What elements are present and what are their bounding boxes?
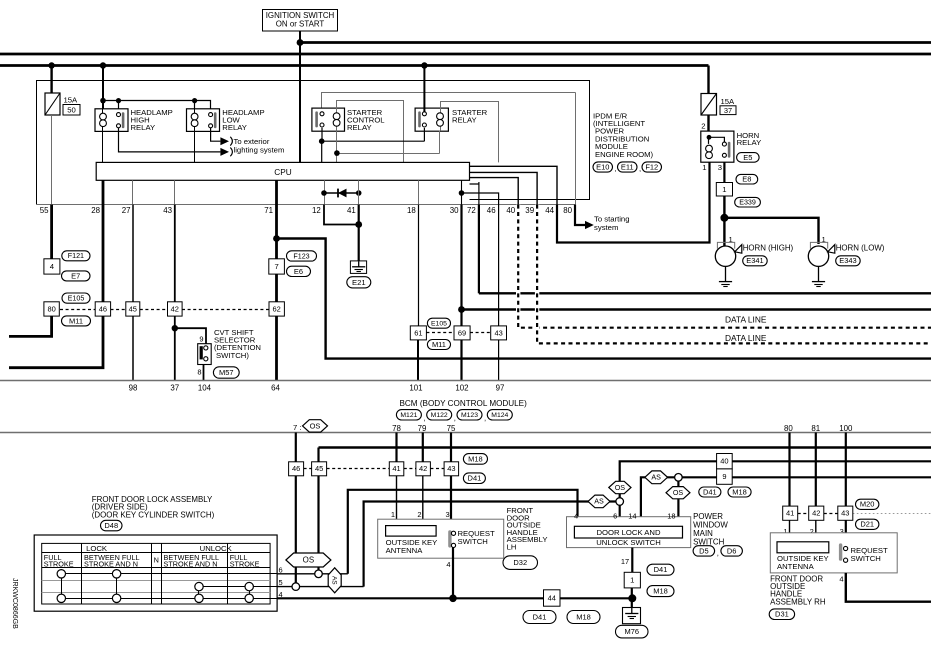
wire pin18 up — [677, 481, 679, 517]
table row wires — [61, 573, 277, 575]
square 44 on wire4 — [544, 590, 561, 606]
square 41 RH — [783, 506, 798, 520]
svg-text:72: 72 — [467, 206, 476, 215]
node — [116, 98, 121, 103]
request switch RH — [839, 543, 842, 560]
svg-text:78: 78 — [392, 424, 401, 433]
front door outside handle LH box — [378, 519, 504, 558]
svg-text:DATA LINE: DATA LINE — [725, 315, 767, 325]
connector row E105/M11 — [60, 309, 95, 311]
wire contacts common — [322, 128, 425, 163]
svg-text:M18: M18 — [468, 454, 483, 463]
wire 2 LH — [422, 476, 424, 526]
svg-text:37: 37 — [724, 106, 732, 115]
outside key antenna LH — [386, 526, 437, 537]
wire to ground M76 — [631, 588, 633, 608]
svg-text:M11: M11 — [432, 340, 446, 349]
node pin71 branch — [273, 235, 280, 242]
square 69 — [454, 326, 470, 340]
node wire4 ground — [628, 594, 636, 602]
svg-text:D41: D41 — [533, 612, 547, 621]
svg-text:46: 46 — [292, 464, 300, 473]
svg-text:62: 62 — [273, 304, 281, 313]
svg-text:CPU: CPU — [274, 168, 291, 177]
relay headlamp high — [95, 109, 128, 132]
svg-text:OS: OS — [673, 489, 684, 497]
node pin41 junction — [355, 221, 362, 228]
svg-text:E105: E105 — [431, 320, 447, 327]
wire4 cylinder — [277, 597, 632, 599]
svg-text:9: 9 — [722, 472, 726, 481]
wire pin44 to horn coil — [557, 162, 710, 242]
svg-text:STROKE: STROKE — [44, 559, 74, 568]
wire pin80 to starting system — [575, 205, 585, 225]
relay starter — [415, 108, 448, 131]
wires RH down — [789, 520, 791, 542]
svg-text:46: 46 — [487, 206, 496, 215]
connector 4 F121/E7 — [44, 259, 60, 274]
svg-text:F123: F123 — [293, 252, 309, 260]
diode — [338, 189, 347, 198]
wire pin17 — [631, 548, 633, 573]
svg-text:STROKE AND N: STROKE AND N — [164, 559, 218, 568]
CPU box — [96, 162, 469, 180]
badge AS line B — [588, 495, 610, 508]
wire 1 LH — [396, 476, 398, 526]
svg-text:D5: D5 — [699, 546, 709, 555]
node wire6-45 — [315, 570, 323, 578]
svg-text:E105: E105 — [68, 294, 85, 302]
square 61 — [410, 326, 426, 340]
node starter relay tap — [421, 62, 427, 68]
svg-text:40: 40 — [720, 457, 728, 466]
svg-text:50: 50 — [67, 106, 76, 115]
wire low coil to CPU — [194, 131, 196, 162]
wire request RH out — [846, 573, 931, 602]
svg-text:43: 43 — [494, 328, 502, 337]
svg-text:E6: E6 — [294, 267, 303, 276]
wire headlamp rail — [103, 101, 211, 113]
wire starter contact feed — [423, 66, 425, 112]
svg-text:SWITCH: SWITCH — [851, 554, 881, 563]
svg-text:27: 27 — [122, 206, 131, 215]
svg-text:42: 42 — [171, 304, 179, 313]
wire CPU to pin44 — [470, 166, 558, 204]
wire pin18 — [418, 180, 420, 204]
svg-text:IGNITION SWITCH: IGNITION SWITCH — [266, 11, 335, 20]
svg-text:71: 71 — [264, 206, 273, 215]
svg-text:DOOR LOCK AND: DOOR LOCK AND — [596, 528, 661, 537]
bus from pin30 — [462, 308, 931, 310]
square 46 row3 — [289, 462, 304, 476]
svg-text:61: 61 — [414, 328, 422, 337]
wire control coil loop — [337, 101, 404, 163]
svg-text:SWITCH): SWITCH) — [216, 351, 249, 360]
wire 81 RH — [815, 433, 817, 507]
node cvt branch — [172, 325, 178, 331]
svg-text:18: 18 — [407, 206, 416, 215]
svg-text:M18: M18 — [576, 612, 591, 621]
wire high coil to CPU — [102, 131, 104, 162]
wire 100 RH — [845, 433, 847, 507]
svg-text:97: 97 — [496, 384, 505, 393]
square 42 row3 — [416, 462, 431, 476]
relay horn — [701, 131, 734, 162]
wire high contact feed — [118, 101, 120, 113]
svg-text:75: 75 — [447, 424, 456, 433]
svg-text:ON or START: ON or START — [276, 20, 325, 29]
svg-text:12: 12 — [312, 206, 321, 215]
wire CPU to pin40 — [470, 178, 519, 205]
arrow to exterior 2 — [220, 148, 229, 156]
square 43 row3 — [444, 462, 459, 476]
svg-text:80: 80 — [47, 304, 55, 313]
wire headlamp feed — [102, 66, 104, 109]
square 45 row3 — [312, 462, 327, 476]
svg-text:80: 80 — [784, 424, 793, 433]
svg-text:17: 17 — [621, 557, 629, 566]
node horn split — [720, 214, 728, 222]
svg-text:M121: M121 — [400, 412, 417, 419]
wire pin72 — [470, 182, 479, 293]
svg-text:D41: D41 — [468, 474, 482, 483]
wire request LH down — [452, 548, 454, 599]
svg-text:41: 41 — [392, 464, 400, 473]
svg-text:1: 1 — [630, 576, 634, 585]
square 43 RH — [838, 506, 853, 520]
svg-text:OS: OS — [310, 421, 321, 430]
relay starter control — [312, 108, 345, 131]
svg-text:system: system — [594, 223, 618, 232]
svg-text:lighting system: lighting system — [234, 146, 285, 155]
svg-text:E7: E7 — [71, 271, 80, 280]
svg-text:9: 9 — [199, 335, 203, 344]
node wire4-request — [449, 595, 457, 603]
svg-text:6: 6 — [613, 511, 617, 520]
svg-text:E10: E10 — [596, 162, 609, 171]
square 46 — [95, 302, 110, 316]
BCM top boundary — [0, 380, 931, 382]
svg-text:44: 44 — [545, 206, 554, 215]
svg-text:102: 102 — [455, 384, 468, 393]
svg-text:4: 4 — [50, 262, 55, 271]
bus L3 — [0, 64, 709, 67]
svg-text:RELAY: RELAY — [222, 123, 247, 132]
node contacts — [319, 138, 325, 144]
svg-text:5: 5 — [279, 578, 283, 587]
svg-text:ANTENNA: ANTENNA — [777, 562, 815, 571]
svg-text:30: 30 — [450, 206, 459, 215]
svg-text:1: 1 — [391, 510, 395, 519]
node wire5-46 — [292, 583, 300, 591]
square 80 — [44, 302, 59, 316]
svg-text:AS: AS — [651, 474, 661, 482]
wire5 riser — [364, 502, 616, 587]
wire pin43 — [174, 180, 176, 204]
door lock and unlock switch box — [567, 517, 691, 548]
bus L1 from ignition — [300, 41, 931, 44]
svg-text:F12: F12 — [645, 162, 658, 171]
svg-text:M20: M20 — [860, 500, 875, 509]
svg-text:M18: M18 — [732, 487, 747, 496]
svg-text:79: 79 — [418, 424, 427, 433]
svg-text:D48: D48 — [104, 521, 118, 530]
svg-text:44: 44 — [548, 593, 556, 602]
relay headlamp low — [187, 109, 220, 132]
connector 7 F123/E6 — [269, 259, 285, 274]
svg-text:69: 69 — [458, 328, 466, 337]
svg-text:55: 55 — [40, 206, 49, 215]
svg-text:STROKE AND N: STROKE AND N — [84, 559, 138, 568]
svg-text:28: 28 — [91, 206, 100, 215]
square 43 — [491, 326, 507, 340]
svg-text:E21: E21 — [352, 278, 366, 287]
node pin30 to46 — [459, 190, 465, 196]
wire fuse50 to pin55 — [51, 115, 53, 205]
svg-text:D31: D31 — [775, 610, 789, 619]
wire pin40 data — [518, 205, 931, 328]
svg-text:AS: AS — [594, 498, 604, 506]
svg-text:ANTENNA: ANTENNA — [386, 546, 424, 555]
svg-text:D32: D32 — [513, 558, 527, 567]
svg-text:46: 46 — [99, 304, 107, 313]
node — [192, 98, 197, 103]
svg-text:RELAY: RELAY — [131, 123, 156, 132]
wire fuse50 feed — [50, 66, 52, 94]
svg-text:42: 42 — [419, 464, 427, 473]
svg-text:LOCK: LOCK — [86, 544, 108, 553]
svg-text:LH: LH — [507, 542, 517, 551]
IPDM E/R outer box — [37, 81, 590, 205]
node diode right — [356, 190, 362, 196]
svg-text:HORN (HIGH): HORN (HIGH) — [743, 244, 794, 253]
wire pin12 — [324, 180, 326, 204]
svg-text:E343: E343 — [839, 256, 856, 265]
wire ignition feed — [299, 31, 301, 162]
svg-text:15A: 15A — [721, 97, 736, 106]
wire diode link — [324, 192, 359, 194]
svg-text:M18: M18 — [653, 587, 668, 596]
svg-text:4: 4 — [574, 511, 578, 520]
wire coils common — [337, 131, 440, 163]
svg-text:43: 43 — [447, 464, 455, 473]
svg-text:M124: M124 — [491, 412, 508, 419]
badge OS driver — [286, 553, 331, 567]
svg-text:81: 81 — [811, 424, 820, 433]
bus L2 — [0, 53, 931, 56]
wire 78 — [395, 433, 397, 462]
wire pin14 up — [641, 477, 931, 516]
square 42 RH — [809, 506, 824, 520]
table contacts — [57, 570, 65, 578]
connector row2 E105/M11 — [426, 332, 454, 334]
node ignition junction — [297, 39, 304, 46]
svg-text:18: 18 — [667, 511, 675, 520]
svg-text:45: 45 — [129, 304, 137, 313]
svg-text:E8: E8 — [742, 175, 751, 184]
svg-text:M122: M122 — [431, 412, 448, 419]
request switch LH — [448, 530, 451, 547]
svg-text:104: 104 — [198, 384, 212, 393]
svg-text:41: 41 — [786, 509, 794, 518]
svg-text:80: 80 — [563, 206, 572, 215]
wire pin71 branch to BCM101 — [277, 239, 931, 359]
svg-text:98: 98 — [129, 384, 138, 393]
ignition switch box — [263, 10, 338, 32]
badge AS pin14 — [645, 471, 668, 484]
connector E8/E339 — [716, 183, 732, 197]
badge AS vertical — [328, 568, 341, 593]
svg-text:D6: D6 — [727, 546, 737, 555]
svg-text:3: 3 — [718, 163, 722, 172]
svg-text:F121: F121 — [68, 252, 84, 260]
svg-text:40: 40 — [506, 206, 515, 215]
svg-text:N: N — [154, 556, 159, 565]
wire cvt branch — [175, 328, 206, 344]
wire pin55 exit — [9, 316, 52, 336]
wire fuse37 feed — [707, 66, 709, 94]
square 62 — [269, 302, 284, 316]
svg-text:,: , — [484, 414, 486, 423]
svg-text:7: 7 — [274, 262, 278, 271]
svg-text:ASSEMBLY RH: ASSEMBLY RH — [770, 597, 826, 606]
svg-text:M76: M76 — [624, 627, 639, 636]
svg-text:E341: E341 — [746, 256, 763, 265]
svg-text:100: 100 — [839, 424, 853, 433]
svg-text:E339: E339 — [739, 199, 756, 207]
svg-text:BCM (BODY CONTROL MODULE): BCM (BODY CONTROL MODULE) — [400, 399, 528, 408]
svg-text:HORN (LOW): HORN (LOW) — [836, 244, 885, 253]
wire 79 — [422, 433, 424, 462]
svg-text:AS: AS — [330, 576, 337, 585]
svg-text:OS: OS — [615, 484, 626, 492]
svg-text:DATA LINE: DATA LINE — [725, 333, 767, 343]
wire starter control contact feed — [322, 93, 576, 112]
svg-text:8: 8 — [197, 367, 201, 376]
BCM bottom boundary — [0, 432, 931, 434]
svg-text:2: 2 — [417, 510, 421, 519]
svg-text:D41: D41 — [654, 565, 668, 574]
wire horn relay pin3 — [723, 162, 725, 182]
wire pin30 — [461, 180, 463, 204]
svg-text:E5: E5 — [743, 153, 752, 162]
wire6 cylinder — [277, 573, 348, 575]
svg-text:3: 3 — [446, 510, 450, 519]
svg-text:M11: M11 — [69, 316, 83, 325]
square 42 — [168, 302, 183, 316]
ground M76 — [623, 608, 641, 624]
wire pin71 — [275, 180, 278, 380]
svg-text:4: 4 — [446, 560, 450, 569]
node horn relay — [707, 135, 712, 140]
svg-text:101: 101 — [409, 384, 423, 393]
svg-text:1: 1 — [702, 163, 706, 172]
svg-text:2: 2 — [701, 122, 705, 131]
wire pin27 — [132, 180, 134, 204]
node pin30 bus — [458, 306, 465, 313]
wire OS 46 from BCM7 — [295, 433, 297, 462]
fuse 15A 37 — [701, 94, 717, 116]
svg-text:D21: D21 — [860, 520, 874, 529]
squares 40/9 — [717, 454, 733, 469]
outside key antenna RH — [777, 542, 829, 553]
badge OS pin18 — [666, 487, 690, 499]
wire 80 RH — [788, 433, 790, 507]
svg-text:,: , — [717, 549, 719, 558]
square 45 — [126, 302, 140, 316]
svg-text:UNLOCK: UNLOCK — [200, 544, 233, 553]
ground E21 — [350, 261, 366, 274]
wire5 cylinder — [277, 586, 364, 588]
svg-text:OS: OS — [303, 556, 314, 565]
wire starter coil loop — [441, 102, 499, 163]
wire cvt out — [203, 365, 205, 381]
wire 75 — [450, 433, 452, 462]
svg-text:ENGINE ROOM): ENGINE ROOM) — [595, 150, 654, 159]
bus from pin72 — [479, 292, 931, 294]
fuse 15A 50 — [45, 93, 60, 115]
node coils — [334, 150, 340, 156]
svg-text:UNLOCK SWITCH: UNLOCK SWITCH — [596, 538, 661, 547]
wire to horns — [723, 196, 725, 246]
svg-text:15A: 15A — [64, 96, 79, 105]
wire high contact out — [119, 128, 221, 152]
svg-text:SWITCH: SWITCH — [458, 537, 488, 546]
wire 3 LH — [450, 476, 452, 531]
svg-text:43: 43 — [163, 206, 172, 215]
svg-text:14: 14 — [628, 511, 636, 520]
svg-text:RELAY: RELAY — [737, 138, 762, 147]
front door outside handle RH box — [770, 533, 897, 573]
wire pin39 data — [537, 205, 931, 344]
wire6 riser — [348, 490, 578, 574]
node headlamp branch — [100, 98, 106, 104]
svg-text:,: , — [423, 414, 425, 423]
svg-text:39: 39 — [525, 206, 534, 215]
wire to horn low — [724, 218, 818, 244]
svg-text:STROKE: STROKE — [230, 559, 260, 568]
svg-text:RELAY: RELAY — [347, 123, 372, 132]
wire low contact out — [211, 128, 221, 141]
wire pin46 branch — [462, 193, 499, 381]
svg-text:42: 42 — [812, 509, 820, 518]
svg-text:41: 41 — [347, 206, 356, 215]
svg-text:64: 64 — [271, 384, 280, 393]
node circle pin6 — [616, 498, 624, 506]
svg-text:,: , — [454, 414, 456, 423]
svg-text:1: 1 — [722, 185, 726, 194]
node circle pin18-14 — [675, 474, 683, 482]
wire low coil feed — [194, 101, 196, 109]
dashed row3 — [304, 468, 312, 470]
svg-text:4: 4 — [839, 575, 843, 584]
svg-text:37: 37 — [170, 384, 179, 393]
wire 45 down — [317, 476, 319, 574]
node diode left — [321, 190, 327, 196]
svg-text:(DOOR KEY CYLINDER SWITCH): (DOOR KEY CYLINDER SWITCH) — [92, 510, 215, 519]
svg-text:M57: M57 — [219, 368, 234, 377]
dashed row RH — [798, 513, 809, 515]
svg-text:E11: E11 — [621, 162, 634, 171]
wire 46 down — [295, 476, 297, 587]
badge OS pin6 — [609, 481, 631, 493]
node fuse50 tap — [48, 62, 54, 68]
wire 45 riser + long bus — [319, 446, 931, 448]
table contact links — [61, 574, 63, 599]
wire fuse37 to relay — [707, 115, 709, 137]
svg-text:RELAY: RELAY — [452, 116, 477, 125]
svg-text:43: 43 — [841, 509, 849, 518]
